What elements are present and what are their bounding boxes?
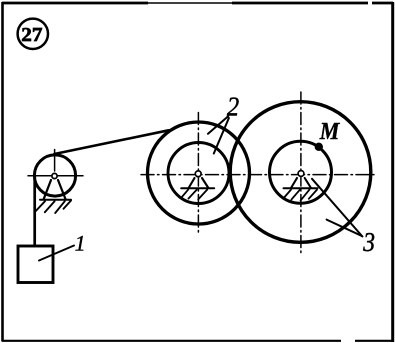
svg-text:M: M bbox=[319, 119, 341, 145]
svg-text:2: 2 bbox=[227, 91, 240, 122]
svg-text:3: 3 bbox=[362, 226, 375, 257]
svg-text:1: 1 bbox=[75, 230, 86, 255]
svg-text:27: 27 bbox=[21, 24, 42, 46]
